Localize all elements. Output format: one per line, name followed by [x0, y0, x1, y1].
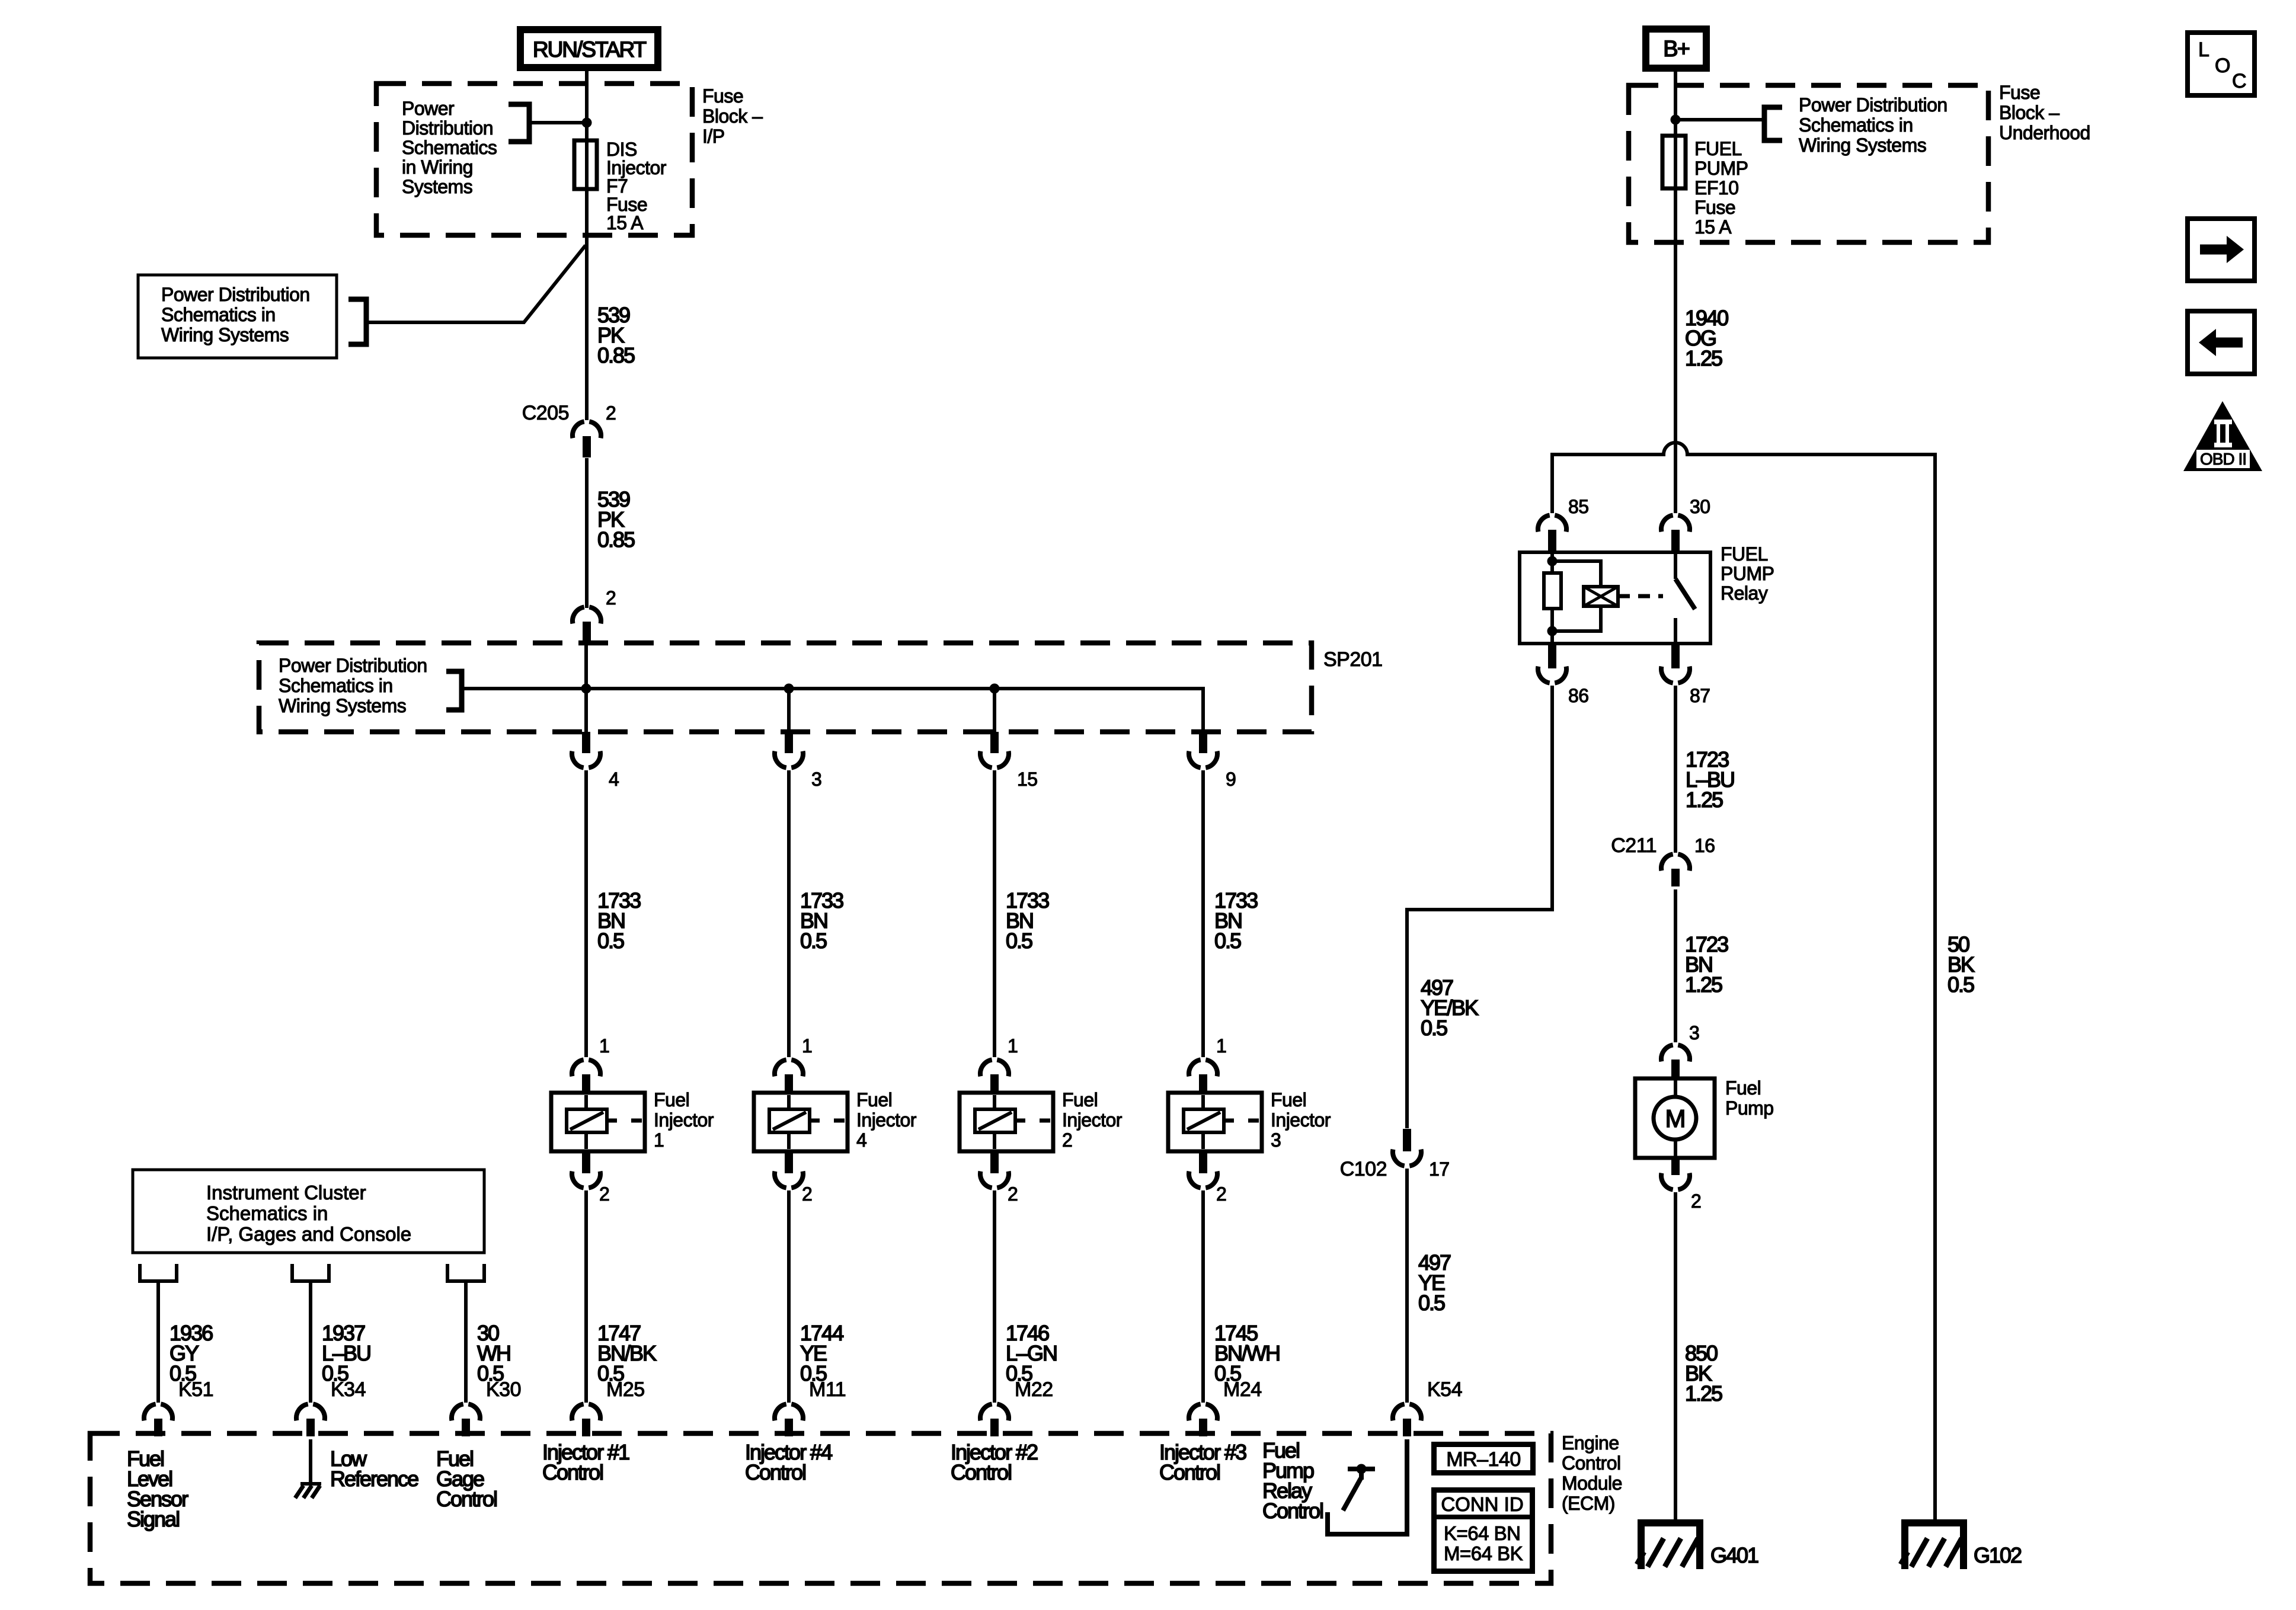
svg-text:Injector: Injector: [1271, 1109, 1331, 1131]
svg-text:OBD II: OBD II: [2200, 450, 2246, 468]
svg-text:MR–140: MR–140: [1446, 1448, 1521, 1471]
fuse block underhood dashed box: [1629, 85, 1988, 242]
svg-text:0.5: 0.5: [1418, 1291, 1445, 1315]
connector fuel injector 3 pin 2: [1189, 1151, 1226, 1205]
power symbol RUN/START: [520, 30, 658, 68]
svg-text:Injector: Injector: [1062, 1109, 1123, 1131]
svg-text:C: C: [2232, 70, 2247, 92]
label fuse F7: [606, 139, 667, 233]
svg-text:M24: M24: [1223, 1378, 1262, 1401]
label FUEL PUMP Relay: [1721, 543, 1774, 604]
svg-text:Power Distribution: Power Distribution: [279, 655, 427, 676]
svg-text:16: 16: [1694, 835, 1715, 856]
svg-text:K54: K54: [1427, 1378, 1462, 1401]
label Low Reference (ECM): [330, 1446, 418, 1491]
svg-text:Schematics in: Schematics in: [161, 304, 276, 325]
connector fuel injector 4 pin 2: [775, 1151, 812, 1205]
wire B+ down to fuel pump relay pin 30: [1674, 72, 1677, 513]
svg-text:Fuel: Fuel: [654, 1089, 689, 1110]
svg-text:3: 3: [1689, 1022, 1699, 1044]
label Fuel Injector 4: [856, 1089, 917, 1151]
svg-text:Control: Control: [1262, 1499, 1323, 1523]
svg-text:SP201: SP201: [1323, 648, 1383, 671]
svg-text:Control: Control: [1159, 1460, 1220, 1484]
label wire 1940 OG 1.25: [1685, 306, 1728, 370]
box CONN ID: [1434, 1490, 1533, 1571]
wire 1723 L-BU 1.25 relay pin 87 to C211: [1674, 686, 1677, 853]
svg-text:1.25: 1.25: [1685, 346, 1722, 370]
relay armature loop and valve symbol: [1552, 561, 1663, 631]
connector pin 2 into splice pack: [573, 587, 616, 643]
ground G401: [1637, 1523, 1758, 1569]
wire SP201 bus: [462, 689, 1203, 735]
svg-text:Control: Control: [436, 1487, 497, 1511]
fuse EF10 FUEL PUMP 15A: [1662, 136, 1686, 188]
svg-text:9: 9: [1226, 769, 1236, 790]
svg-text:Schematics in: Schematics in: [279, 675, 393, 696]
wire 1744 YE 0.5 to ECM: [787, 1190, 791, 1403]
wire 1936 GY 0.5 (K51): [156, 1281, 160, 1403]
connector fuel injector 1 pin 1: [572, 1035, 609, 1093]
svg-text:RUN/START: RUN/START: [533, 37, 647, 62]
fuel pump motor: [1635, 1078, 1715, 1158]
svg-text:C205: C205: [522, 402, 569, 424]
svg-text:Wiring Systems: Wiring Systems: [161, 324, 289, 345]
connector SP201 output pin 3: [775, 732, 821, 790]
svg-text:O: O: [2215, 55, 2230, 77]
fuse F7 DIS Injector 15A: [574, 140, 597, 189]
svg-text:0.5: 0.5: [597, 929, 624, 953]
label wire 1733 BN 0.5 (injector 1): [597, 888, 641, 953]
label Engine Control Module (ECM): [1562, 1432, 1622, 1514]
connector C211 pin 16: [1611, 834, 1715, 886]
svg-text:2: 2: [606, 402, 616, 424]
connector fuel pump relay pin 85: [1538, 496, 1589, 551]
node splice junction column 2: [784, 684, 794, 694]
svg-text:Fuel: Fuel: [856, 1089, 892, 1110]
svg-text:(ECM): (ECM): [1562, 1493, 1615, 1514]
icon LOC box: [2188, 33, 2255, 95]
svg-text:Reference: Reference: [330, 1467, 418, 1491]
fuel injector 1: [551, 1093, 645, 1151]
connector ECM terminal M24: [1189, 1378, 1262, 1436]
svg-text:4: 4: [856, 1129, 866, 1151]
note text Power Distribution Schematics (fuse block I/P): [402, 98, 497, 197]
wire 1733 BN 0.5 to fuel injector 1: [584, 770, 588, 1057]
wire splice drop column 2: [787, 689, 791, 735]
note text Power Distribution Schematics (underhood): [1799, 94, 1948, 156]
svg-text:Module: Module: [1562, 1473, 1622, 1494]
node splice junction column 1: [581, 684, 591, 694]
solid box Power Distribution Schematics in Wiring Systems: [138, 275, 337, 358]
svg-text:Engine: Engine: [1562, 1432, 1619, 1454]
wire 1733 BN 0.5 to fuel injector 4: [787, 770, 791, 1057]
label Fuel Pump: [1725, 1077, 1774, 1119]
svg-text:K=64 BN: K=64 BN: [1444, 1522, 1521, 1544]
svg-text:1: 1: [1216, 1035, 1226, 1057]
svg-text:1.25: 1.25: [1686, 788, 1723, 812]
label Injector #3 Control (ECM): [1159, 1440, 1246, 1484]
splice pack SP201 dashed box: [259, 643, 1312, 732]
node splice junction column 3: [990, 684, 1000, 694]
wire 1937 L–BU 0.5 (K34): [309, 1281, 312, 1403]
svg-text:CONN ID: CONN ID: [1441, 1493, 1523, 1515]
wire stub to power distribution note (underhood): [1675, 118, 1764, 121]
svg-text:15: 15: [1017, 769, 1038, 790]
svg-text:K34: K34: [331, 1378, 366, 1401]
svg-text:85: 85: [1568, 496, 1589, 517]
icon arrow previous page: [2188, 311, 2255, 374]
label wire 497 YE/BK 0.5: [1421, 975, 1479, 1040]
svg-text:17: 17: [1429, 1158, 1450, 1180]
svg-text:EF10: EF10: [1694, 177, 1738, 199]
svg-text:Fuse: Fuse: [1999, 82, 2040, 103]
svg-text:15 A: 15 A: [1694, 216, 1732, 238]
wire 850 BK 1.25 to ground G401: [1674, 1192, 1677, 1523]
wire K54 to driver contact (inside ECM): [1328, 1439, 1407, 1534]
icon OBD II triangle: [2183, 401, 2262, 471]
svg-text:Pump: Pump: [1725, 1097, 1774, 1119]
connector ECM terminal K51: [144, 1378, 213, 1436]
svg-text:0.5: 0.5: [1421, 1016, 1447, 1040]
svg-text:2: 2: [1008, 1183, 1018, 1205]
svg-text:G102: G102: [1974, 1543, 2022, 1567]
svg-text:15 A: 15 A: [606, 212, 644, 233]
wire 1746 L–GN 0.5 to ECM: [993, 1190, 996, 1403]
svg-text:Systems: Systems: [402, 176, 472, 197]
svg-text:Power Distribution: Power Distribution: [161, 284, 310, 305]
fuel injector 3: [1168, 1093, 1262, 1151]
connector fuel pump relay pin 87: [1661, 645, 1710, 706]
wire diagonal stub to power distribution note: [366, 245, 586, 322]
wire RUN/START to fuse F7 and down to connector C205: [585, 71, 589, 420]
connector fuel injector 2 pin 2: [980, 1151, 1018, 1205]
svg-text:0.5: 0.5: [800, 929, 827, 953]
svg-text:0.5: 0.5: [1214, 929, 1241, 953]
svg-text:Relay: Relay: [1721, 582, 1768, 604]
engine control module ECM dashed box: [90, 1433, 1551, 1583]
svg-text:M11: M11: [809, 1378, 846, 1401]
svg-text:C211: C211: [1611, 834, 1657, 857]
relay FUEL PUMP Relay box: [1520, 552, 1710, 644]
connector SP201 output pin 15: [980, 732, 1038, 790]
label wire 1746 L–GN 0.5: [1006, 1321, 1057, 1385]
svg-text:2: 2: [1216, 1183, 1226, 1205]
note text Power Distribution Schematics (SP201): [279, 655, 427, 716]
svg-text:1.25: 1.25: [1685, 1381, 1722, 1406]
connector fuel injector 2 pin 1: [980, 1035, 1018, 1093]
box MR-140: [1434, 1445, 1533, 1473]
bracket link (power distribution note): [348, 299, 366, 344]
ground low reference (inside ECM): [295, 1484, 321, 1498]
svg-text:Fuse: Fuse: [702, 85, 743, 107]
wire branch to relay pin 85 and ground G102 (hop over B+ wire): [1552, 443, 1935, 1519]
svg-text:C102: C102: [1340, 1158, 1387, 1180]
svg-text:Schematics in: Schematics in: [206, 1202, 328, 1224]
label Fuel Injector 1: [654, 1089, 714, 1151]
svg-text:M: M: [1665, 1105, 1685, 1132]
bracket link (SP201 note): [446, 671, 462, 710]
connector fuel pump pin 2: [1661, 1157, 1701, 1212]
svg-text:Control: Control: [951, 1460, 1011, 1484]
connector fuel injector 1 pin 2: [572, 1151, 609, 1205]
label Fuel Injector 3: [1271, 1089, 1331, 1151]
svg-text:1: 1: [599, 1035, 609, 1057]
label wire 497 YE 0.5: [1418, 1250, 1451, 1315]
svg-text:Block –: Block –: [702, 105, 763, 127]
label wire 1747 BN/BK 0.5: [597, 1321, 657, 1385]
svg-text:Control: Control: [542, 1460, 603, 1484]
svg-text:0.85: 0.85: [597, 527, 635, 552]
label wire 1936 GY 0.5: [170, 1321, 213, 1385]
wire 30 WH 0.5 (K30): [464, 1281, 468, 1403]
wire 1733 BN 0.5 to fuel injector 2: [993, 770, 996, 1057]
bracket link (underhood note): [1764, 107, 1782, 140]
label wire 539 PK 0.85 (upper): [597, 303, 635, 367]
connector C102 pin 17: [1340, 1129, 1450, 1180]
wire splice drop column 3: [993, 689, 996, 735]
svg-text:in Wiring: in Wiring: [402, 156, 473, 178]
node junction on RUN/START feed: [582, 118, 592, 128]
svg-text:B+: B+: [1663, 37, 1689, 62]
connector ECM terminal M22: [980, 1378, 1053, 1436]
label wire 1745 BN/WH 0.5: [1214, 1321, 1280, 1385]
svg-text:I/P, Gages and Console: I/P, Gages and Console: [206, 1223, 411, 1245]
icon arrow next page: [2188, 219, 2255, 281]
connector C205 pin 2: [522, 402, 616, 457]
svg-text:Power: Power: [402, 98, 455, 119]
svg-text:1: 1: [1008, 1035, 1018, 1057]
svg-text:Injector: Injector: [856, 1109, 917, 1131]
instrument cluster box: [133, 1170, 484, 1253]
svg-text:1: 1: [654, 1129, 664, 1151]
connector fuel pump relay pin 30: [1661, 496, 1710, 551]
svg-text:Fuel: Fuel: [1725, 1077, 1761, 1099]
svg-text:FUEL: FUEL: [1721, 543, 1768, 565]
label Injector #1 Control (ECM): [542, 1440, 629, 1484]
svg-text:Power Distribution: Power Distribution: [1799, 94, 1948, 116]
svg-text:4: 4: [609, 769, 619, 790]
power symbol B+: [1646, 29, 1706, 68]
svg-text:PUMP: PUMP: [1694, 158, 1748, 179]
svg-text:0.5: 0.5: [1948, 972, 1974, 997]
connector tab instrument cluster (K34): [292, 1264, 329, 1281]
label wire 1733 BN 0.5 (injector 3): [1214, 888, 1258, 953]
svg-text:Control: Control: [745, 1460, 805, 1484]
label wire 1733 BN 0.5 (injector 2): [1006, 888, 1049, 953]
svg-text:Wiring Systems: Wiring Systems: [279, 695, 406, 716]
label wire 539 PK 0.85 (lower): [597, 487, 635, 552]
wire 497 YE 0.5 to ECM K54: [1405, 1169, 1409, 1403]
wire 1745 BN/WH 0.5 to ECM: [1201, 1190, 1205, 1403]
fuse block I/P dashed box: [376, 84, 692, 235]
svg-text:Underhood: Underhood: [1999, 122, 2090, 143]
wire 539 PK below C205: [585, 458, 589, 608]
svg-text:86: 86: [1568, 685, 1589, 706]
connector SP201 output pin 9: [1189, 732, 1236, 790]
svg-text:2: 2: [599, 1183, 609, 1205]
svg-text:Fuel: Fuel: [1271, 1089, 1306, 1110]
svg-text:PUMP: PUMP: [1721, 563, 1774, 584]
connector tab instrument cluster (K51): [140, 1264, 177, 1281]
svg-text:FUEL: FUEL: [1694, 138, 1742, 159]
svg-text:M22: M22: [1015, 1378, 1053, 1401]
svg-text:Wiring Systems: Wiring Systems: [1799, 135, 1926, 156]
switch fuel pump relay control driver (inside ECM): [1343, 1464, 1375, 1511]
connector fuel pump pin 3: [1661, 1022, 1699, 1079]
svg-text:Schematics in: Schematics in: [1799, 114, 1913, 136]
wire low reference to ground (inside ECM): [309, 1439, 312, 1483]
wire 1723 BN 1.25 to fuel pump: [1674, 889, 1677, 1042]
label Injector #4 Control (ECM): [745, 1440, 832, 1484]
connector ECM terminal K54: [1393, 1378, 1462, 1436]
svg-text:0.85: 0.85: [597, 343, 635, 367]
label wire 1723 BN 1.25: [1685, 932, 1728, 997]
fuel injector 2: [960, 1093, 1053, 1151]
svg-text:Distribution: Distribution: [402, 117, 493, 139]
svg-text:30: 30: [1690, 496, 1710, 517]
svg-text:M25: M25: [606, 1378, 645, 1401]
label fuse EF10: [1694, 138, 1748, 238]
label wire 1723 L-BU 1.25: [1686, 747, 1734, 812]
label Fuse Block I/P: [702, 85, 763, 147]
label Fuel Pump Relay Control (ECM): [1262, 1438, 1323, 1523]
connector fuel injector 3 pin 1: [1189, 1035, 1226, 1093]
bracket link to note (fuse block I/P): [509, 104, 584, 142]
svg-text:87: 87: [1690, 685, 1710, 706]
svg-text:0.5: 0.5: [1006, 929, 1032, 953]
relay switch (30 to 87): [1675, 552, 1695, 644]
label wire 1733 BN 0.5 (injector 4): [800, 888, 843, 953]
svg-text:Fuel: Fuel: [1062, 1089, 1098, 1110]
svg-text:K51: K51: [178, 1378, 213, 1401]
svg-text:Fuse: Fuse: [1694, 197, 1735, 218]
connector SP201 output pin 4: [572, 732, 619, 790]
svg-text:2: 2: [802, 1183, 812, 1205]
ground G102: [1901, 1523, 2022, 1569]
node junction at B+ feed: [1671, 115, 1681, 125]
label Fuel Gage Control (ECM): [436, 1446, 497, 1511]
connector ECM terminal K30: [452, 1378, 521, 1436]
wire 1747 BN/BK 0.5 to ECM: [584, 1190, 588, 1403]
svg-text:I/P: I/P: [702, 126, 725, 147]
svg-text:2: 2: [1062, 1129, 1072, 1151]
svg-text:Injector: Injector: [654, 1109, 714, 1131]
label wire 1744 YE 0.5: [800, 1321, 843, 1385]
connector fuel injector 4 pin 1: [775, 1035, 812, 1093]
svg-text:1: 1: [802, 1035, 812, 1057]
connector fuel pump relay pin 86: [1538, 645, 1589, 706]
svg-text:3: 3: [811, 769, 821, 790]
label wire 1937 L–BU 0.5: [322, 1321, 370, 1385]
svg-text:Block –: Block –: [1999, 102, 2060, 123]
svg-text:M=64 BK: M=64 BK: [1444, 1542, 1523, 1564]
label Injector #2 Control (ECM): [951, 1440, 1038, 1484]
svg-text:G401: G401: [1710, 1543, 1758, 1567]
svg-text:Instrument Cluster: Instrument Cluster: [206, 1182, 366, 1204]
wire splice drop column 1: [584, 644, 588, 735]
label Fuel Injector 2: [1062, 1089, 1123, 1151]
connector ECM terminal M11: [775, 1378, 846, 1436]
label wire 850 BK 1.25: [1685, 1341, 1722, 1406]
svg-text:2: 2: [606, 587, 616, 609]
svg-text:K30: K30: [486, 1378, 521, 1401]
relay coil: [1544, 552, 1561, 644]
wire 497 YE/BK 0.5 relay pin 86 to C102: [1407, 686, 1552, 1128]
svg-text:Control: Control: [1562, 1452, 1621, 1474]
svg-text:Signal: Signal: [127, 1507, 179, 1531]
connector ECM terminal M25: [572, 1378, 645, 1436]
svg-text:3: 3: [1271, 1129, 1281, 1151]
svg-text:2: 2: [1691, 1190, 1701, 1212]
label SP201: [1323, 648, 1383, 671]
connector tab instrument cluster (K30): [447, 1264, 484, 1281]
connector ECM terminal K34: [296, 1378, 366, 1436]
svg-text:Schematics: Schematics: [402, 137, 497, 158]
wire 1733 BN 0.5 to fuel injector 3: [1201, 770, 1205, 1057]
svg-text:L: L: [2198, 39, 2209, 61]
label wire 30 WH 0.5: [477, 1321, 510, 1385]
label Fuse Block Underhood: [1999, 82, 2090, 143]
label Fuel Level Sensor Signal (ECM): [127, 1446, 188, 1531]
label wire 50 BK 0.5: [1948, 932, 1975, 997]
fuel injector 4: [754, 1093, 848, 1151]
svg-text:1.25: 1.25: [1685, 972, 1722, 997]
